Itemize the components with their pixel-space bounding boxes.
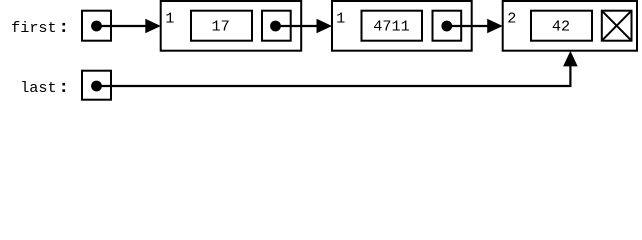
- svg-text:2: 2: [507, 9, 516, 27]
- svg-text:1: 1: [165, 9, 174, 27]
- svg-text:1: 1: [336, 9, 345, 27]
- svg-text:first: first: [11, 19, 57, 37]
- svg-text:last: last: [20, 79, 56, 97]
- svg-text:17: 17: [211, 18, 229, 36]
- svg-text:4711: 4711: [373, 18, 409, 36]
- svg-text:42: 42: [552, 18, 570, 36]
